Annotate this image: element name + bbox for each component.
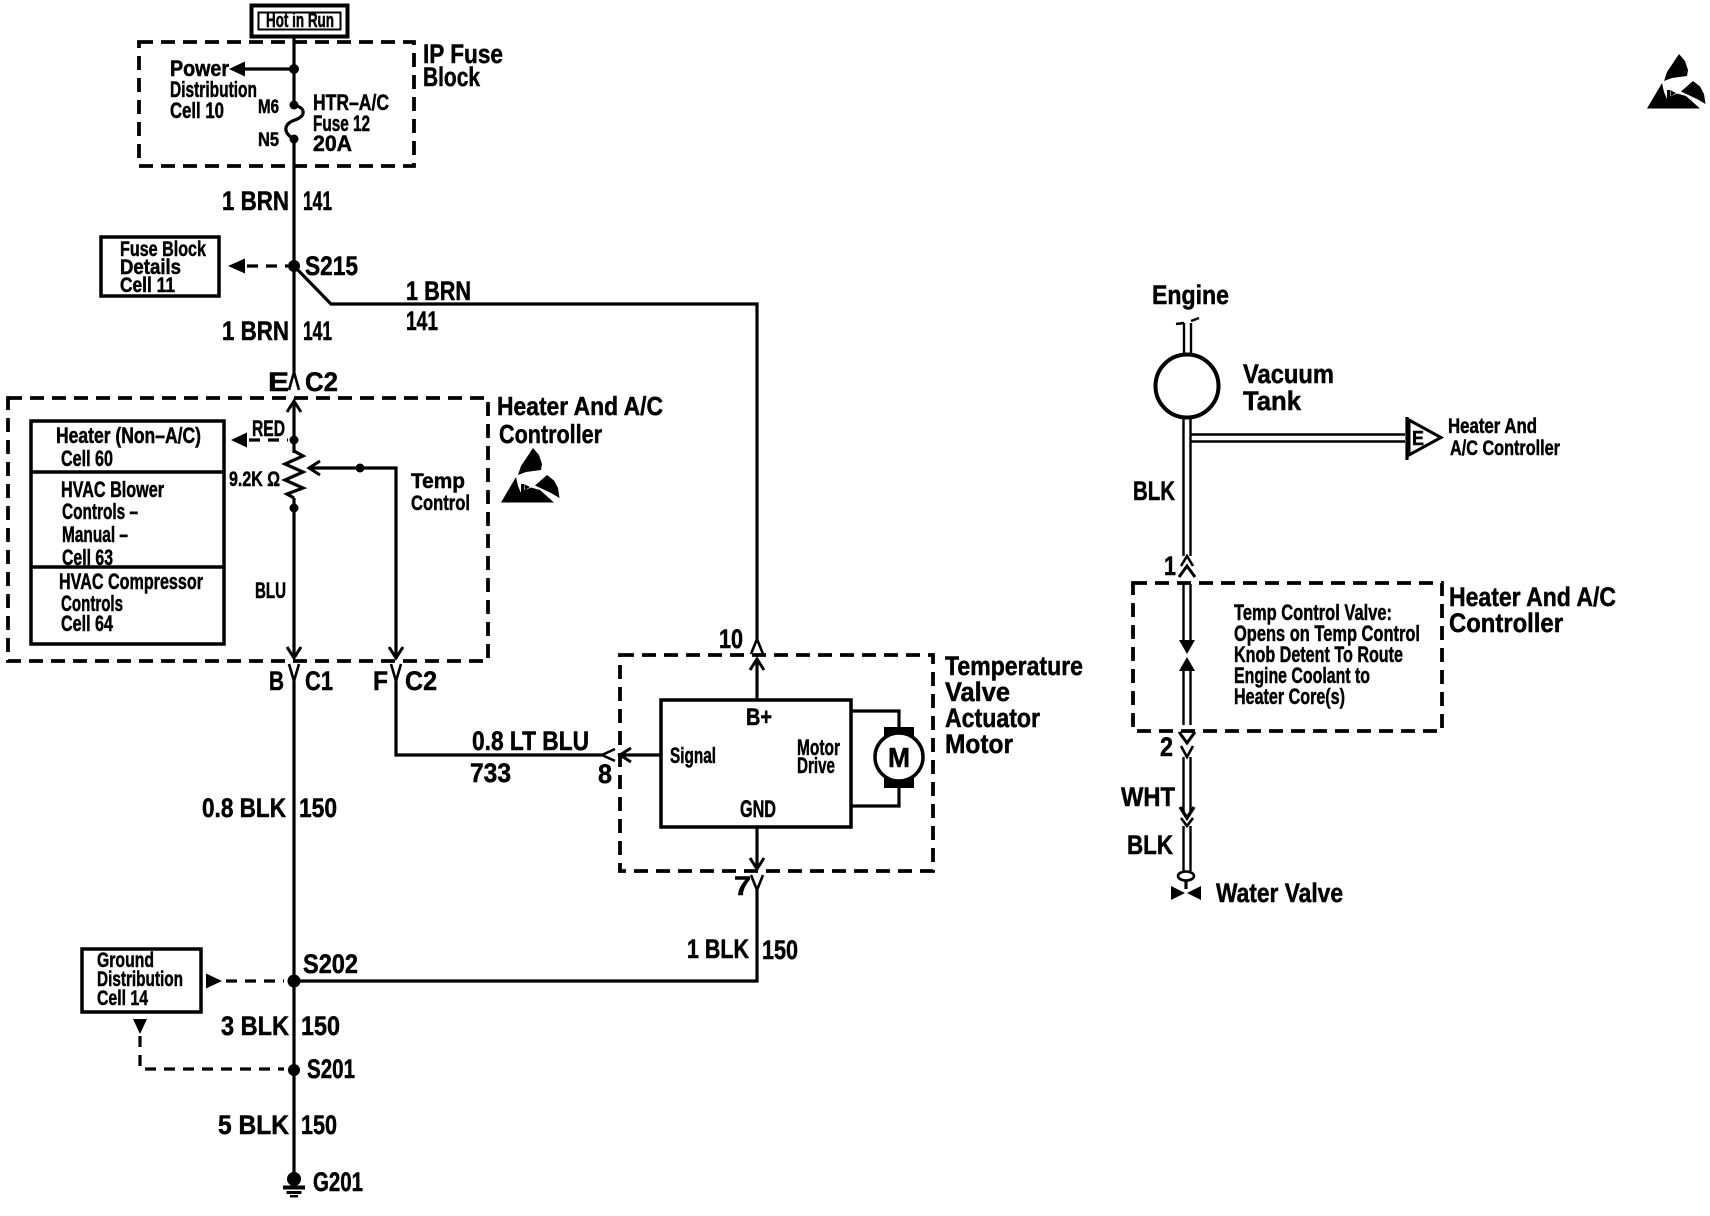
- wire pin B to S202 (0.8 BLK 150): [292, 681, 295, 981]
- label Temperature Valve Actuator Motor: [945, 651, 1083, 759]
- svg-text:141: 141: [406, 306, 438, 336]
- motor control box: [661, 700, 851, 827]
- connector pin 7: [734, 827, 764, 901]
- note Temp Control Valve: [1234, 600, 1420, 709]
- svg-text:Cell 63: Cell 63: [62, 545, 113, 570]
- dashed arrow RED to Heater cell: [231, 416, 299, 448]
- dashed arrow Ground Distribution to S202: [206, 974, 284, 989]
- svg-text:Heater And: Heater And: [1448, 415, 1537, 438]
- connector pin 1: [1164, 551, 1195, 581]
- svg-text:C2: C2: [405, 666, 437, 696]
- wire resistor to pin B: [287, 498, 301, 658]
- connector C1 pin B: [269, 664, 333, 696]
- svg-text:S202: S202: [303, 949, 358, 979]
- Heater And A/C Controller dashed box (vacuum): [1133, 583, 1442, 731]
- svg-text:Engine: Engine: [1152, 280, 1229, 310]
- svg-text:Vacuum: Vacuum: [1243, 359, 1334, 389]
- connector arrow into controller: [287, 401, 301, 453]
- label Vacuum Tank: [1243, 359, 1334, 416]
- svg-text:Heater (Non–A/C): Heater (Non–A/C): [56, 423, 201, 448]
- svg-text:3 BLK: 3 BLK: [221, 1011, 289, 1041]
- hose joint connector: [1181, 818, 1193, 826]
- svg-text:RED: RED: [252, 416, 285, 441]
- Heater And A/C Controller dashed box: [8, 398, 488, 661]
- svg-text:Manual –: Manual –: [62, 522, 128, 547]
- svg-text:M: M: [888, 742, 910, 773]
- label Power Distribution Cell 10: [170, 56, 257, 123]
- svg-text:S215: S215: [305, 251, 358, 281]
- water valve: [1171, 886, 1201, 900]
- svg-text:Temp: Temp: [411, 470, 465, 493]
- svg-text:Controls –: Controls –: [62, 499, 138, 524]
- wire S201 to G201 (5 BLK 150): [292, 1070, 295, 1174]
- svg-text:1 BRN: 1 BRN: [222, 186, 289, 216]
- label 1 BRN 141 (branch): [406, 276, 471, 336]
- label 0.8 BLK 150: [202, 793, 337, 823]
- splice S202: [288, 949, 359, 988]
- label 1 BLK 150: [687, 934, 798, 965]
- branch hose to E connector: [1190, 435, 1405, 442]
- label HVAC Compressor Controls Cell 64: [59, 569, 203, 636]
- svg-text:10: 10: [719, 624, 743, 654]
- svg-text:N5: N5: [258, 130, 279, 151]
- hose BLK: [1184, 826, 1191, 871]
- fuse HTR-A/C Fuse 12 20A: [286, 101, 303, 144]
- wire fuse to S215: [292, 139, 295, 266]
- label 1 BRN 141 (top): [222, 186, 332, 216]
- svg-text:Cell 11: Cell 11: [120, 274, 175, 297]
- svg-text:Cell 10: Cell 10: [170, 98, 224, 123]
- ESD symbol (top right): [1647, 54, 1706, 109]
- node below resistor: [290, 504, 299, 513]
- svg-text:1 BLK: 1 BLK: [687, 934, 749, 964]
- Hot in Run box: [252, 6, 348, 37]
- connector C2 pin E: [268, 367, 338, 397]
- wire S215 to connector C2 pin E: [292, 266, 295, 372]
- temp control valve symbol: [1179, 584, 1195, 725]
- svg-text:Heater Core(s): Heater Core(s): [1234, 684, 1345, 709]
- svg-text:0.8 BLK: 0.8 BLK: [202, 793, 286, 823]
- svg-text:150: 150: [301, 1011, 340, 1041]
- label Heater And A/C Controller (right): [1449, 582, 1616, 638]
- ESD symbol (controller): [501, 448, 560, 503]
- svg-text:E: E: [1412, 428, 1424, 450]
- svg-text:WHT: WHT: [1121, 782, 1175, 812]
- svg-text:0.8 LT BLU: 0.8 LT BLU: [472, 726, 589, 756]
- connector E to Heater/AC controller: [1407, 417, 1441, 460]
- splice S201: [288, 1054, 355, 1084]
- svg-text:BLU: BLU: [255, 578, 286, 603]
- node power distribution tap: [289, 64, 299, 74]
- dashed arrow to Fuse Block Details: [228, 259, 288, 274]
- svg-text:Cell 14: Cell 14: [97, 987, 148, 1010]
- wire pin F to motor pin 8 (0.8 LT BLU 733): [396, 681, 602, 755]
- cells reference box: [31, 421, 224, 644]
- svg-text:2: 2: [1160, 732, 1173, 762]
- connector pin 8: [598, 748, 661, 789]
- hose WHT: [1180, 757, 1194, 818]
- vacuum hose Engine to tank: [1176, 318, 1199, 355]
- svg-text:E: E: [268, 367, 289, 397]
- svg-text:B+: B+: [746, 704, 772, 731]
- svg-text:1 BRN: 1 BRN: [222, 316, 289, 346]
- svg-text:141: 141: [303, 316, 332, 346]
- svg-text:Cell 60: Cell 60: [61, 446, 113, 471]
- svg-text:Water Valve: Water Valve: [1216, 878, 1343, 908]
- svg-text:8: 8: [598, 759, 612, 789]
- svg-text:20A: 20A: [313, 131, 352, 156]
- label 5 BLK 150: [218, 1110, 337, 1140]
- svg-text:1 BRN: 1 BRN: [406, 276, 471, 306]
- svg-text:GND: GND: [740, 796, 776, 823]
- svg-text:150: 150: [299, 793, 337, 823]
- svg-text:150: 150: [762, 935, 798, 965]
- dashed arrow Ground Distribution to S201: [133, 1019, 284, 1069]
- splice S215: [288, 251, 358, 281]
- arrow to Power Distribution: [229, 62, 294, 77]
- resistor 9.2K: [285, 451, 303, 498]
- label HTR-A/C Fuse 12 20A: [313, 90, 389, 156]
- svg-text:Cell 64: Cell 64: [61, 611, 114, 636]
- wire S215 branch to pin 10 (1 BRN 141): [294, 266, 757, 639]
- svg-text:S201: S201: [307, 1054, 355, 1084]
- svg-text:Controller: Controller: [1449, 608, 1563, 638]
- svg-text:141: 141: [303, 186, 332, 216]
- svg-text:150: 150: [301, 1110, 337, 1140]
- svg-text:C2: C2: [305, 367, 338, 397]
- hose end fitting: [1178, 872, 1194, 890]
- svg-text:733: 733: [470, 758, 511, 788]
- Ground Distribution box: [82, 949, 201, 1012]
- svg-text:Drive: Drive: [797, 753, 835, 778]
- svg-text:Heater And A/C: Heater And A/C: [497, 391, 663, 421]
- svg-text:Hot in Run: Hot in Run: [266, 10, 334, 32]
- IP Fuse Block dashed box: [139, 42, 414, 166]
- svg-text:7: 7: [734, 871, 751, 901]
- svg-text:Motor: Motor: [945, 729, 1013, 759]
- temp control wiper: [309, 461, 403, 658]
- vacuum hose tank down to pin 1: [1184, 418, 1191, 556]
- ground G201: [283, 1167, 363, 1198]
- svg-text:A/C Controller: A/C Controller: [1450, 437, 1560, 460]
- label Heater And A/C Controller: [497, 391, 663, 449]
- svg-text:F: F: [373, 666, 388, 696]
- wire S202 to S201 (3 BLK 150): [292, 981, 295, 1070]
- wire Hot in Run to fuse: [292, 36, 295, 105]
- svg-text:9.2K Ω: 9.2K Ω: [229, 468, 280, 491]
- svg-text:G201: G201: [313, 1167, 363, 1197]
- svg-text:5 BLK: 5 BLK: [218, 1110, 289, 1140]
- motor M: [851, 711, 923, 806]
- svg-text:M6: M6: [258, 97, 279, 118]
- svg-text:BLK: BLK: [1133, 476, 1175, 506]
- Temperature Valve Actuator Motor dashed box: [620, 655, 933, 871]
- label Temp Control: [411, 470, 470, 515]
- svg-text:Controller: Controller: [499, 419, 602, 449]
- svg-text:1: 1: [1164, 551, 1176, 581]
- connector pin 10: [719, 624, 764, 700]
- label 3 BLK 150: [221, 1011, 340, 1041]
- svg-text:BLK: BLK: [1127, 830, 1173, 860]
- Fuse Block Details box: [101, 237, 219, 297]
- label Heater And A/C Controller (E): [1448, 415, 1560, 460]
- svg-text:Control: Control: [411, 492, 470, 515]
- svg-text:B: B: [269, 666, 284, 696]
- svg-text:Signal: Signal: [670, 743, 716, 768]
- label Heater (Non-A/C) Cell 60: [56, 423, 201, 471]
- label 1 BRN 141 (below S215): [222, 316, 332, 346]
- vacuum tank: [1156, 355, 1219, 418]
- label IP Fuse Block: [423, 39, 503, 92]
- svg-text:Tank: Tank: [1243, 386, 1302, 416]
- label HVAC Blower Controls Manual Cell 63: [61, 477, 164, 570]
- label 0.8 LT BLU 733: [470, 726, 589, 788]
- connector pin 2: [1160, 732, 1195, 762]
- svg-text:C1: C1: [305, 666, 333, 696]
- wire pin 7 to S202 (1 BLK 150): [294, 890, 757, 981]
- connector C2 pin F: [373, 664, 437, 696]
- svg-text:Block: Block: [423, 62, 481, 92]
